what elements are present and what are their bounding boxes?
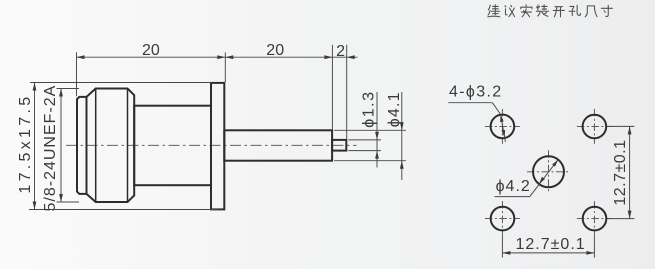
leader 4-phi3.2	[448, 102, 492, 104]
thread end cap (left piece)	[77, 97, 87, 194]
coupling nut body	[87, 89, 135, 203]
svg-text:12.7±0.1: 12.7±0.1	[612, 140, 629, 206]
centerlines center hole	[527, 171, 570, 173]
centerlines top-right hole	[577, 125, 612, 127]
connector body cylinder	[134, 106, 211, 186]
svg-text:20: 20	[266, 42, 284, 59]
hole circle top-left (phi3.2)	[491, 115, 515, 139]
extension line nut bottom	[57, 201, 80, 203]
extension line nut top	[57, 88, 80, 90]
extension line pin tip	[346, 45, 348, 140]
title glyph 尺	[585, 6, 597, 17]
extension line left end	[76, 52, 78, 96]
arrows of 20/20/2	[77, 55, 85, 59]
svg-text:4-ϕ3.2: 4-ϕ3.2	[449, 84, 503, 101]
nut chamfer edge left	[95, 89, 97, 203]
title glyph 开	[553, 7, 564, 17]
title glyph 寸	[601, 5, 612, 16]
title glyph 装	[536, 5, 548, 17]
square mounting flange	[211, 83, 224, 209]
dimension phi1.3 line	[376, 92, 378, 168]
dimension 20+20+2 line	[77, 56, 358, 58]
centerlines bottom-right hole	[577, 218, 612, 220]
centerlines top-left hole	[485, 125, 520, 127]
svg-text:ϕ4.1: ϕ4.1	[386, 91, 403, 127]
center contact pin	[332, 140, 346, 151]
extension line dielectric end	[331, 45, 333, 130]
title glyph 安	[521, 5, 532, 17]
extension line flange top	[30, 82, 212, 84]
svg-text:ϕ1.3: ϕ1.3	[360, 90, 377, 127]
hole circle top-right (phi3.2)	[583, 115, 607, 139]
title glyph 议	[505, 5, 515, 16]
title glyph 建	[488, 5, 500, 17]
centerline axis	[66, 144, 357, 146]
svg-text:20: 20	[142, 42, 160, 59]
dielectric bushing	[224, 130, 332, 160]
svg-text:12.7±0.1: 12.7±0.1	[516, 236, 586, 253]
hole circle bottom-right (phi3.2)	[583, 207, 607, 231]
dimension phi4.1 line	[401, 92, 403, 180]
svg-text:2: 2	[336, 43, 345, 60]
extension line flange face	[224, 52, 226, 82]
svg-text:5/8-24UNEF-2A: 5/8-24UNEF-2A	[42, 85, 59, 212]
title glyph 孔	[569, 5, 580, 15]
vertical dimension 12.7±0.1	[607, 125, 634, 127]
dimension 5/8-24UNEF-2A line	[60, 89, 62, 203]
svg-text:17.5x17.5: 17.5x17.5	[17, 94, 34, 194]
nut chamfer edge right	[127, 89, 129, 203]
horizontal dimension 12.7±0.1	[501, 236, 503, 257]
svg-text:ϕ4.2: ϕ4.2	[496, 178, 531, 195]
center hole circle (phi4.2)	[533, 156, 564, 187]
centerlines bottom-left hole	[485, 218, 520, 220]
leader phi4.2	[495, 196, 530, 198]
extension lines pin diameter	[348, 139, 381, 141]
hole circle bottom-left (phi3.2)	[491, 207, 515, 231]
extension line flange bottom	[29, 209, 219, 211]
extension lines dielectric diameter	[334, 129, 406, 131]
dimension 17.5x17.5 line	[34, 83, 36, 210]
